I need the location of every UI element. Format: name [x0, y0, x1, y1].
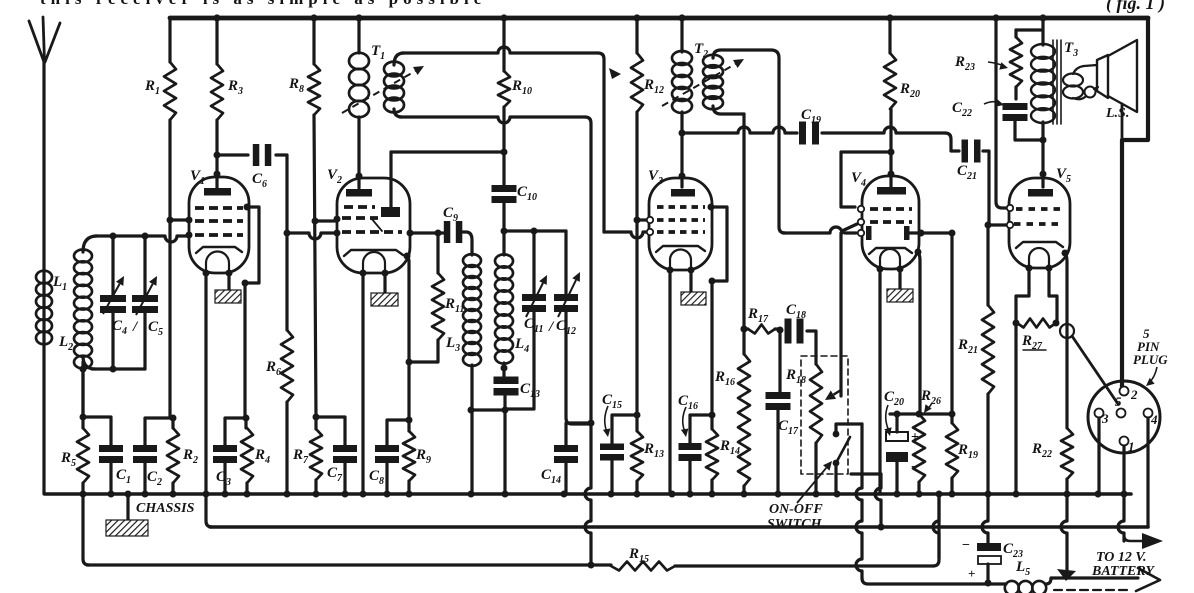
wire R12 to V3 grid: [637, 218, 646, 221]
wire R22 node to battery line: [1061, 494, 1067, 572]
capacitor C15: [612, 415, 637, 445]
V4 cathode lead: [878, 269, 881, 494]
svg-text:TO 12 V.: TO 12 V.: [1096, 550, 1146, 565]
capacitor C7: [316, 417, 345, 446]
on-off switch / volume control dashed enclosure: [801, 356, 848, 474]
wire C21 to V5 grid: [988, 223, 1007, 226]
variable capacitor C11: [532, 231, 535, 294]
battery arrow lower: [1136, 568, 1160, 591]
chassis bus: [45, 492, 1131, 496]
plug pin 4: [1144, 409, 1153, 418]
resistor R16: [738, 354, 750, 486]
variable capacitor C5: [143, 236, 146, 295]
capacitor C8: [387, 420, 409, 446]
svg-text:PLUG: PLUG: [1133, 352, 1168, 367]
resistor R8: [312, 18, 315, 64]
wire L2 top to V1 grid: [83, 236, 97, 252]
top supply rail: [170, 16, 1148, 21]
5 pin plug body: [1088, 381, 1160, 453]
wire R1 to V1 grid and down to R2: [168, 120, 171, 418]
valve V4 grid node wiring: [889, 109, 892, 188]
V3 ground: [689, 270, 692, 292]
svg-text:this receiver is as simple as: this receiver is as simple as possible: [40, 0, 486, 8]
variable capacitor C4: [111, 236, 114, 295]
coil L5: [1005, 581, 1019, 593]
svg-text:1: 1: [1128, 439, 1135, 454]
V2 ground: [383, 273, 386, 293]
V1 grid stub nodes: [186, 217, 193, 224]
wire T2 secondary top to C19 node: [713, 50, 785, 233]
plug pin 5: [1117, 409, 1126, 418]
V5 grid stubs: [1007, 205, 1013, 211]
screen feed wire to V5: [996, 18, 1007, 208]
top rail junction nodes: [213, 14, 220, 21]
capacitor C16: [690, 415, 712, 444]
valve V5: [1009, 178, 1070, 268]
resistor R3: [215, 18, 218, 64]
volume control wiper wire: [839, 233, 842, 396]
wire C13 bottom to L3: [471, 408, 505, 411]
tuned circuit bus above C11 C12: [504, 229, 566, 232]
coil L2: [74, 250, 92, 263]
resistor R4: [244, 418, 247, 428]
output diagonal wire to plug pin 5: [1072, 336, 1118, 404]
node L2 bottom: [80, 366, 87, 373]
resistor R23: [1014, 30, 1017, 37]
supply node wire y414: [890, 412, 952, 415]
wire T1 secondary bottom: [394, 109, 402, 117]
capacitor C1: [99, 445, 123, 452]
speaker return wire: [1121, 104, 1124, 141]
T1 secondary coil: [384, 62, 404, 77]
resistor R21: [986, 225, 989, 305]
transformer T3 primary: [1041, 18, 1044, 45]
V2 screen loop to R9: [404, 253, 411, 260]
T3 secondary: [1063, 74, 1083, 87]
svg-text:CHASSIS: CHASSIS: [136, 501, 195, 516]
resistor R7: [310, 429, 322, 480]
plug pin wires: [1097, 418, 1100, 494]
svg-text:2: 2: [1130, 387, 1138, 402]
V4 grid stubs: [858, 206, 864, 212]
wire T2 secondary bottom to R16: [713, 106, 744, 114]
resistor R15: [611, 562, 675, 571]
potentiometer R18: [810, 364, 822, 443]
V3 top cap wire / T2 primary node: [680, 112, 683, 187]
plug pin 2: [1120, 387, 1129, 396]
capacitor C10: [492, 185, 517, 192]
resistor R12: [635, 18, 638, 53]
AVC wire to V4 grid and volume control: [783, 227, 842, 233]
V5 filament socket: [1016, 268, 1029, 323]
V4 screen wire to R19: [910, 233, 952, 423]
svg-text:L.S.: L.S.: [1105, 106, 1129, 121]
V2 grid stubs: [334, 216, 341, 223]
V4 anode wire to R26 node: [915, 249, 922, 256]
anode coupling wire V3 to C19: [682, 127, 797, 133]
V3 cathode lead: [668, 270, 671, 494]
resistor R1: [168, 18, 171, 62]
capacitor C3: [225, 418, 246, 446]
valve V4: [862, 176, 919, 269]
V4 side plates: [866, 226, 872, 240]
V2 kink line: [371, 218, 382, 231]
transformer T2 primary: [680, 18, 683, 52]
capacitor C2: [145, 418, 173, 446]
svg-text:4: 4: [1150, 412, 1158, 427]
earth return rail: [206, 494, 212, 527]
right border wire to loudspeaker return: [1122, 18, 1148, 387]
switch contacts and lever: [833, 431, 840, 438]
battery arrow upper: [1118, 494, 1124, 541]
svg-text:+: +: [968, 566, 975, 581]
V4 ground: [898, 269, 901, 289]
resistor R9: [407, 420, 410, 431]
resistor R19: [946, 423, 958, 478]
valve V1: [189, 177, 249, 273]
capacitor C19: [799, 122, 806, 145]
wire L2 bottom junction: [83, 356, 95, 369]
wire T1 secondary top to V3 grid: [394, 53, 404, 65]
coil L1: [36, 271, 52, 284]
capacitor C6: [217, 153, 248, 156]
capacitor C14: [566, 423, 591, 446]
wire R10 node to V2 anode: [391, 150, 504, 153]
wiper pivot circle: [1060, 324, 1074, 338]
V1 cathode lead to chassis bus: [204, 273, 207, 494]
small ink mark: [609, 68, 621, 79]
loudspeaker LS: [1097, 55, 1108, 98]
resistor R14: [710, 415, 713, 429]
antenna lead wire: [42, 61, 45, 494]
switch top contact wire to battery line: [836, 424, 862, 434]
valve V2: [337, 178, 410, 273]
capacitor C13: [494, 377, 519, 385]
svg-text:( fig. 1 ): ( fig. 1 ): [1106, 0, 1165, 14]
battery supply line via switch: [856, 424, 862, 578]
plug pin 3: [1095, 409, 1104, 418]
electrolytic capacitor C23: [982, 494, 988, 543]
V2 cathode lead: [361, 273, 364, 494]
capacitor C9: [410, 231, 446, 234]
valve V3: [649, 178, 712, 270]
resistor R11: [436, 233, 439, 273]
capacitor C21: [962, 140, 969, 163]
resistor R16 feed wire: [742, 114, 745, 354]
transformer T1 primary: [357, 18, 360, 53]
svg-text:BATTERY: BATTERY: [1091, 564, 1155, 579]
capacitor C18: [785, 319, 792, 344]
V5 anode wire: [1062, 250, 1069, 257]
coil L4: [495, 254, 513, 267]
resistor R13: [635, 415, 638, 431]
plug pin 1: [1120, 437, 1129, 446]
HT negative rail: [83, 494, 89, 565]
resistor R26: [913, 414, 925, 482]
capacitor C17: [778, 330, 781, 392]
wire grid bus to V2: [287, 233, 336, 239]
node C5 top: [142, 233, 149, 240]
svg-text:5: 5: [1115, 394, 1122, 409]
switch bottom contact wire to chassis: [834, 463, 837, 494]
resistor R22: [1061, 428, 1073, 479]
resistor R10: [502, 18, 505, 71]
T1 tuning arrow: [342, 71, 415, 113]
capacitor C22: [1003, 103, 1028, 110]
variable capacitor C12: [564, 231, 567, 294]
T2 tuning arrow: [662, 64, 735, 106]
V1 ground: [227, 273, 230, 290]
resistor R6: [285, 233, 288, 330]
switch pointer arrow: [797, 468, 826, 503]
wire switch box to earth rail: [851, 472, 881, 475]
wire T3 secondary to speaker: [1073, 65, 1097, 74]
wire R5 node to C1: [83, 417, 111, 446]
V1 anode loop: [244, 204, 251, 211]
wire R8 down to R7: [314, 115, 316, 417]
wire V1 anode down to R4: [243, 283, 246, 418]
svg-text:SWITCH: SWITCH: [767, 517, 823, 532]
resistor R5: [81, 369, 84, 428]
wire R23 top to rail node: [1016, 28, 1043, 31]
antenna: [29, 17, 60, 62]
V2 inner anode plate: [381, 207, 400, 217]
T2 secondary coil: [703, 55, 723, 68]
wire V3 loop down to R14: [710, 281, 713, 415]
resistor R27: [1017, 319, 1056, 328]
resistor R2: [167, 428, 179, 483]
node C4 top: [110, 233, 117, 240]
wire C18 to R18 top: [807, 331, 816, 364]
coil L3: [463, 254, 481, 267]
svg-text:−: −: [962, 538, 970, 553]
resistor R17: [741, 326, 748, 333]
chassis ground symbol: [126, 494, 129, 520]
wire R3 to V1 top cap: [215, 120, 218, 189]
svg-text:ON-OFF: ON-OFF: [769, 502, 823, 517]
T3 core: [1053, 40, 1061, 124]
node C4 bottom: [110, 366, 117, 373]
svg-text:3: 3: [1101, 411, 1109, 426]
resistor R20: [888, 18, 891, 53]
V3 grid stubs: [647, 217, 653, 223]
electrolytic capacitor C20: [895, 414, 898, 432]
V2 anode wire from R10 node: [389, 152, 392, 207]
V3 screen loop: [708, 204, 715, 211]
